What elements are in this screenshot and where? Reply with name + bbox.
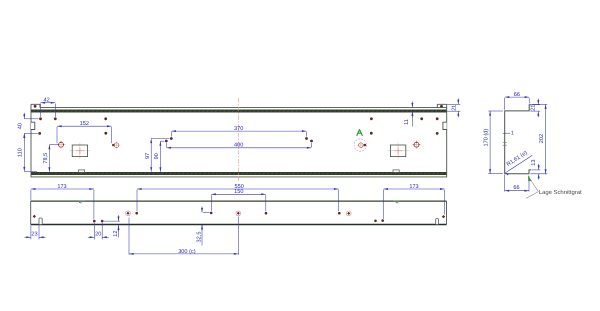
hole dot bottom-4: [210, 212, 213, 215]
dimension 11: [411, 116, 413, 127]
svg-text:40: 40: [18, 123, 24, 129]
svg-text:23: 23: [31, 232, 37, 238]
main view right edge notch: [443, 122, 447, 129]
bottom view right edge: [446, 201, 448, 224]
hole dot main-9: [38, 132, 41, 135]
dimension 550: [136, 190, 138, 212]
dimension 78,5: [49, 144, 58, 146]
dimension 370: [170, 132, 172, 137]
svg-text:170 (d): 170 (d): [482, 129, 489, 147]
hole dot main-1: [34, 105, 37, 108]
svg-text:78,5: 78,5: [43, 153, 49, 164]
dimension 300 (c): [128, 218, 130, 255]
svg-text:12: 12: [113, 230, 119, 236]
dimension 150: [210, 195, 212, 211]
bottom view bend relief mark left: [79, 200, 86, 202]
svg-text:173: 173: [409, 184, 418, 190]
hole dot bottom-1: [93, 220, 96, 223]
hole dot main-11: [370, 132, 373, 135]
hole dot bottom-6: [338, 212, 341, 215]
svg-text:152: 152: [80, 121, 89, 127]
svg-text:370: 370: [234, 126, 243, 132]
corner punch mark left: [33, 215, 36, 218]
hole dot main-6: [370, 117, 373, 120]
svg-text:66: 66: [513, 185, 519, 191]
svg-text:150: 150: [234, 189, 243, 195]
dimension 97: [151, 138, 169, 140]
bottom band relief notch right: [393, 170, 399, 173]
hole dot main-3: [39, 117, 42, 120]
dimension 202: [532, 103, 548, 105]
dimension 42: [40, 104, 42, 118]
dimension 40: [24, 118, 38, 120]
tooling hole mark center: [236, 211, 241, 216]
svg-text:300 (c): 300 (c): [178, 248, 196, 255]
radius callout R1,61 (e): [505, 155, 532, 172]
section web break ticks: [503, 141, 507, 143]
svg-text:21: 21: [531, 105, 537, 111]
hole dot main-12: [436, 132, 439, 135]
svg-text:97: 97: [145, 153, 151, 159]
dimension 152: [56, 127, 58, 143]
dimension 21 section: [532, 104, 540, 106]
svg-text:90: 90: [154, 153, 160, 159]
svg-text:Lage Schnittgrat: Lage Schnittgrat: [539, 189, 582, 196]
round hole with center mark right: [412, 144, 421, 146]
svg-text:66: 66: [514, 92, 520, 98]
dimension 1 (thickness): [503, 132, 511, 134]
bottom view left edge: [30, 201, 32, 224]
dimension 170 (d): [488, 110, 503, 112]
main view outline: [31, 104, 447, 177]
hole dot bottom-5: [265, 212, 268, 215]
tooling hole mark left: [126, 211, 131, 216]
svg-text:20: 20: [95, 231, 101, 237]
corner punch mark right: [442, 215, 445, 218]
svg-text:400: 400: [234, 143, 243, 149]
dimension 173 left: [30, 190, 32, 201]
dimension 23: [30, 226, 32, 240]
svg-text:110: 110: [18, 148, 24, 157]
svg-text:21: 21: [452, 105, 458, 111]
dimension 32,5: [203, 212, 210, 214]
burr-side leader with green arrow: [530, 179, 539, 192]
bottom view slot left: [39, 218, 42, 224]
dimension 110: [24, 171, 37, 173]
detail A label: [357, 130, 362, 136]
hole dot main-7: [420, 117, 423, 120]
hole dot main-13: [170, 137, 173, 140]
svg-text:1: 1: [511, 131, 514, 137]
hole dot main-5: [104, 117, 107, 120]
main view top bend zone band: [31, 110, 447, 112]
section profile: [505, 105, 532, 174]
dimension 90: [160, 140, 164, 142]
dimension 173 right: [382, 190, 384, 219]
svg-text:13: 13: [531, 159, 537, 165]
hole dot bottom-2: [101, 220, 104, 223]
dimension 400: [165, 143, 167, 147]
tooling hole mark right: [346, 211, 351, 216]
dimension 66 top: [504, 98, 506, 110]
dimension 13: [531, 169, 540, 171]
hole dot main-16: [310, 140, 313, 143]
svg-text:202: 202: [539, 134, 545, 143]
dimension 20: [93, 223, 95, 240]
round hole with center mark left: [57, 144, 66, 146]
bottom view slot right: [436, 219, 439, 225]
rectangular cutout right: [388, 150, 409, 152]
main view bottom bend zone band: [31, 172, 447, 174]
keyhole punch right (detail A): [357, 144, 365, 146]
hole dot bottom-3: [135, 212, 138, 215]
bottom view top edge: [31, 200, 447, 202]
svg-text:173: 173: [57, 184, 66, 190]
bottom view bottom edge: [31, 224, 447, 226]
hole dot main-14: [305, 137, 308, 140]
vertical centerline: [238, 98, 240, 182]
svg-text:11: 11: [404, 119, 410, 125]
dimension 66 bottom: [504, 175, 506, 192]
hole dot main-8: [436, 117, 439, 120]
svg-text:42: 42: [43, 98, 49, 104]
bottom band relief notch left: [79, 170, 85, 173]
hole dot main-15: [165, 140, 168, 143]
hole dot bottom-7: [374, 220, 377, 223]
hole dot bottom-8: [381, 219, 384, 222]
rectangular cutout left: [69, 150, 90, 152]
hole dot main-4: [54, 117, 57, 120]
bottom view bend relief mark right: [393, 200, 399, 202]
hole dot main-10: [104, 132, 107, 135]
svg-text:32,5: 32,5: [197, 232, 203, 243]
main view left edge notch: [31, 122, 35, 129]
detail A callout circle: [354, 139, 366, 151]
dimension 21 right: [447, 103, 460, 105]
dimension 12: [104, 220, 120, 222]
hole dot main-2: [440, 105, 443, 108]
keyhole punch left: [113, 144, 121, 146]
